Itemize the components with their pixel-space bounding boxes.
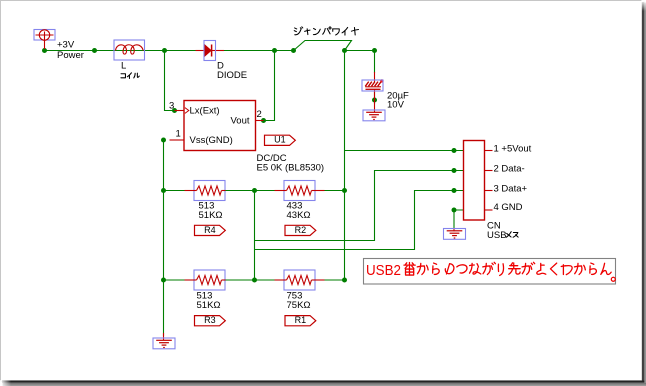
node pin1 Vss xyxy=(161,138,166,143)
frame bottom shadow xyxy=(0,380,646,386)
wire main +3V rail xyxy=(45,50,294,52)
svg-text:51KΩ: 51KΩ xyxy=(197,300,221,311)
node jumper right xyxy=(342,48,347,53)
wire cap top xyxy=(374,51,376,74)
label coil kana xyxy=(121,73,139,79)
value label L xyxy=(121,61,126,72)
power symbol +3V xyxy=(34,30,55,50)
reference tag R2 xyxy=(285,225,316,236)
node R4 left xyxy=(161,188,166,193)
svg-text:+3V: +3V xyxy=(57,40,75,51)
svg-text:Vss(GND): Vss(GND) xyxy=(190,135,233,146)
connector CN USB body xyxy=(464,141,493,221)
pin label 3 Data+ xyxy=(494,184,528,195)
reference label CN xyxy=(487,221,507,242)
wire USB pin2 route xyxy=(255,171,464,241)
diode D xyxy=(196,41,225,61)
svg-text:USB: USB xyxy=(487,230,507,241)
node pin3 Lx xyxy=(172,108,177,113)
node cap gnd xyxy=(372,98,377,103)
capacitor C 20uF xyxy=(362,72,384,104)
node R3 left xyxy=(161,278,166,283)
svg-text:Power: Power xyxy=(57,50,84,61)
node jumper left xyxy=(291,48,296,53)
svg-text:1: 1 xyxy=(176,129,181,140)
node usb3 xyxy=(452,188,457,193)
ground main left xyxy=(153,333,175,349)
svg-text:1 +5Vout: 1 +5Vout xyxy=(494,144,532,155)
svg-text:Lx(Ext): Lx(Ext) xyxy=(190,106,220,117)
wire jumper raised segment xyxy=(294,41,352,51)
wire USB pin4 to ground xyxy=(454,210,464,228)
IC U1 DC/DC converter body xyxy=(170,101,264,151)
net label +3V Power xyxy=(57,40,84,62)
resistor R1 xyxy=(275,270,325,290)
node power xyxy=(42,48,47,53)
svg-text:2: 2 xyxy=(257,109,262,120)
node usb2 xyxy=(452,168,457,173)
svg-text:4 GND: 4 GND xyxy=(494,202,523,213)
node usb1 xyxy=(452,148,457,153)
svg-text:R2: R2 xyxy=(295,225,307,235)
wire jumper to cap node xyxy=(345,50,375,52)
value label R4 513 51K xyxy=(199,201,223,222)
label USB female kana xyxy=(506,232,518,238)
svg-text:51KΩ: 51KΩ xyxy=(199,210,223,221)
svg-text:R3: R3 xyxy=(204,315,216,325)
pin number 2 Vout xyxy=(257,109,262,120)
svg-text:Vout: Vout xyxy=(231,116,250,127)
reference tag R3 xyxy=(195,315,226,326)
value label R2 433 43K xyxy=(287,201,311,222)
pin label 4 GND xyxy=(494,202,523,213)
frame right shadow xyxy=(641,0,646,384)
resistor R3 xyxy=(185,270,226,290)
node divider mid top xyxy=(252,188,257,193)
value label D DIODE xyxy=(217,61,247,82)
inductor L xyxy=(114,40,145,60)
label jumper wire kana xyxy=(294,27,358,35)
value label R3 513 51K xyxy=(197,291,221,312)
node rail b xyxy=(162,48,167,53)
wire cap bottom to ground xyxy=(374,91,376,104)
node divider mid bottom xyxy=(252,278,257,283)
svg-text:L: L xyxy=(121,61,126,72)
pin number 3 Lx xyxy=(169,101,174,112)
svg-text:R4: R4 xyxy=(204,225,216,235)
svg-text:10V: 10V xyxy=(387,100,405,111)
wire +5V feedback vertical xyxy=(344,51,346,281)
node rail a xyxy=(92,48,97,53)
svg-text:43KΩ: 43KΩ xyxy=(287,210,311,221)
wire Vout riser xyxy=(264,51,275,121)
wire to USB pin1 xyxy=(345,150,464,152)
wire Vss to ground vertical xyxy=(163,140,165,336)
svg-text:U1: U1 xyxy=(274,135,286,145)
node R1 out xyxy=(342,278,347,283)
svg-text:75KΩ: 75KΩ xyxy=(287,300,311,311)
pin label 1 +5Vout xyxy=(494,144,532,155)
svg-text:R1: R1 xyxy=(295,315,307,325)
note box red comment xyxy=(364,259,616,285)
pin number 1 Vss xyxy=(176,129,181,140)
wire USB pin3 route xyxy=(255,191,464,250)
wire R4 row xyxy=(164,190,345,192)
wire R3 row xyxy=(164,279,345,281)
wire divider mid vertical xyxy=(254,191,256,281)
ground USB pin4 xyxy=(444,228,466,239)
svg-text:2 Data-: 2 Data- xyxy=(494,164,525,175)
node usb4 xyxy=(452,208,457,213)
svg-text:3: 3 xyxy=(169,101,174,112)
value label C 20uF 10V xyxy=(387,91,409,111)
reference tag R1 xyxy=(285,315,316,326)
svg-text:E5 0K (BL8530): E5 0K (BL8530) xyxy=(257,163,325,174)
resistor R2 xyxy=(275,181,325,201)
resistor R4 xyxy=(185,181,226,201)
label U1 tag xyxy=(265,135,296,146)
value label R1 753 75K xyxy=(287,291,311,312)
wire Lx pin3 drop xyxy=(165,51,175,111)
node cap top xyxy=(372,48,377,53)
reference tag R4 xyxy=(195,225,226,236)
svg-text:USB2: USB2 xyxy=(366,262,401,279)
node pin2 Vout xyxy=(261,118,266,123)
node diode out xyxy=(272,48,277,53)
pin label 2 Data- xyxy=(494,164,525,175)
node R2 out xyxy=(342,188,347,193)
svg-text:DIODE: DIODE xyxy=(217,70,247,81)
label U1 value xyxy=(257,153,325,174)
svg-text:3 Data+: 3 Data+ xyxy=(494,184,528,195)
ground under capacitor xyxy=(363,104,385,121)
